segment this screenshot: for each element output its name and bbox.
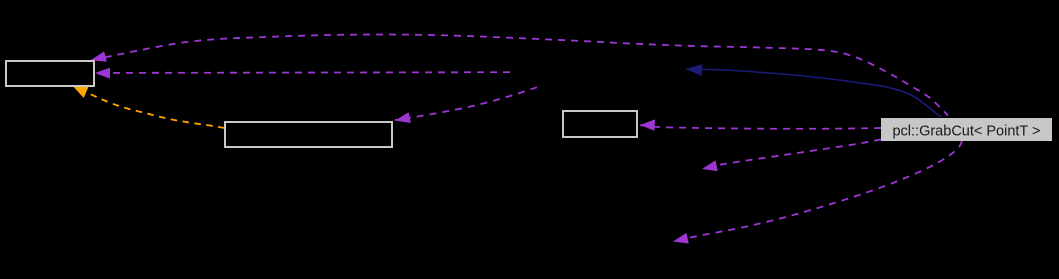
wire: edge E8 purple dashed from pcl::GrabCut node bottom curving to invisible node lower-left [673, 141, 962, 241]
arrowhead of edge E7 [702, 160, 718, 171]
arrowhead of edge E3 orange at node A bottom [73, 86, 89, 98]
arrowhead of edge E2 at node A right edge [95, 68, 110, 79]
node C: empty bordered box [563, 111, 637, 137]
wire: edge E6 purple dashed from pcl::GrabCut node left to node C right edge [640, 125, 881, 129]
arrowhead of edge E6 at node C right edge [640, 119, 655, 130]
wire: edge E1 purple dashed from pcl::GrabCut node top arcing to node A top [92, 35, 948, 116]
node B: empty bordered box [225, 122, 392, 147]
arrowhead of edge E4 at node B top-right corner [395, 112, 411, 123]
arrowhead of edge E8 [673, 233, 689, 244]
node D: main node pcl::GrabCut< PointT > grey filled [881, 118, 1052, 141]
arrowhead of edge E1 at node A top-right [91, 51, 107, 61]
node A: empty bordered box top-left [6, 61, 94, 86]
wire: edge E4 purple dashed from invisible node down to node B top-right [395, 87, 537, 120]
svg-text:pcl::GrabCut< PointT >: pcl::GrabCut< PointT > [892, 123, 1040, 139]
wire: edge E2 purple dashed horizontal from invisible node to node A right edge [113, 71, 511, 74]
arrowhead of edge E5 blue [686, 64, 702, 76]
wire: edge E5 blue solid inheritance from pcl::GrabCut node to invisible base node [686, 69, 941, 117]
wire: edge E7 purple dashed from pcl::GrabCut node bottom-left to invisible node [702, 139, 881, 168]
wire: edge E3 orange dashed template relation from node B to node A bottom [75, 87, 225, 128]
